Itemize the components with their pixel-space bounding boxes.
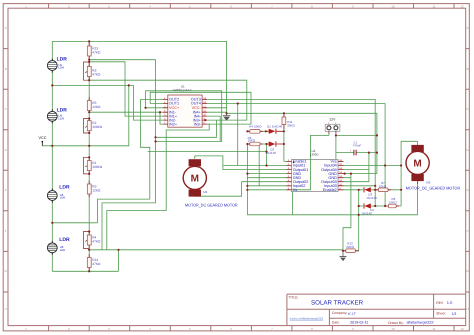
svg-text:VCC+: VCC+ xyxy=(169,106,180,110)
svg-text:12: 12 xyxy=(460,4,464,8)
capacitor C1 470uF xyxy=(350,141,362,156)
svg-text:LM339_D14-T: LM339_D14-T xyxy=(173,88,192,92)
diode D4 1N4148 xyxy=(361,203,374,215)
svg-text:1/1: 1/1 xyxy=(452,312,457,316)
svg-text:LDR: LDR xyxy=(59,66,65,70)
wire U2 right GND pins to R12 xyxy=(343,174,377,251)
svg-text:1.0: 1.0 xyxy=(447,300,453,305)
junction D4 anode xyxy=(358,205,360,207)
junction VCC LDR column xyxy=(51,145,53,147)
junction D1 anode xyxy=(265,130,267,132)
svg-text:R4 10KΩ: R4 10KΩ xyxy=(249,125,262,129)
U1 pin names xyxy=(169,98,202,127)
border zone numbers bottom xyxy=(25,327,464,331)
junction Input03 OUT3 xyxy=(374,185,376,187)
svg-text:22KΩ: 22KΩ xyxy=(287,124,295,128)
svg-text:E: E xyxy=(467,188,469,192)
border zone numbers top xyxy=(25,4,464,8)
junction R3 bottom xyxy=(88,79,90,81)
driver IC U2 L293D xyxy=(287,149,344,192)
svg-text:H: H xyxy=(467,307,469,311)
svg-text:D1 1N4148: D1 1N4148 xyxy=(267,125,283,129)
junction VCC column xyxy=(88,145,90,147)
svg-text:11: 11 xyxy=(432,4,435,8)
wire ground rail horizontal to right side xyxy=(227,113,377,173)
wire diode column down to R12 xyxy=(358,190,360,251)
junction Input02 branch xyxy=(246,185,248,187)
svg-text:12KΩ: 12KΩ xyxy=(92,105,101,109)
svg-text:LDR: LDR xyxy=(59,237,70,243)
wire IN1- branch to IN2+ xyxy=(160,112,163,124)
junction D2 cathode xyxy=(283,143,285,145)
junction GND right pin stub xyxy=(344,173,346,175)
resistor R14 xyxy=(87,254,101,271)
svg-text:LDR: LDR xyxy=(60,196,66,200)
wire IN4+ to ground rail xyxy=(207,111,227,113)
VCC net flag xyxy=(39,136,47,146)
U1 pin numbers xyxy=(164,97,207,125)
svg-text:M: M xyxy=(413,159,421,170)
svg-text:M2: M2 xyxy=(426,180,430,184)
trimmer resistor R4 xyxy=(84,232,101,249)
trimmer resistor R1 xyxy=(84,157,103,174)
svg-text:12KΩ: 12KΩ xyxy=(92,188,101,192)
svg-text:M1: M1 xyxy=(203,190,207,194)
junction LDR3-LDR4 xyxy=(51,222,53,224)
junction IN1- branch xyxy=(159,111,161,113)
junction Vs branch xyxy=(246,189,248,191)
border zone letters left xyxy=(5,26,8,311)
junction Vss C1 xyxy=(368,152,370,154)
wire node R13-R3 to IN1+ xyxy=(89,62,163,116)
wire ground rail top xyxy=(52,41,226,115)
junction Input01 branch xyxy=(265,164,267,166)
junction R2 bottom xyxy=(88,132,90,134)
diode D3 1N4148 xyxy=(364,187,377,200)
resistor R8 xyxy=(385,197,399,208)
junction Input04 M2 xyxy=(400,164,402,166)
svg-text:B: B xyxy=(467,67,469,71)
connector P1 12V xyxy=(325,117,340,133)
junction IN3+ stub xyxy=(204,119,206,121)
junction diode column motor rail xyxy=(358,214,360,216)
wire M2 top feed xyxy=(401,141,417,206)
TITLEBLOCK xyxy=(287,294,466,326)
wire bottom motors rail xyxy=(247,184,417,215)
PARTS xyxy=(39,41,461,271)
svg-text:10KΩ: 10KΩ xyxy=(379,184,387,188)
svg-text:LDR: LDR xyxy=(59,184,70,190)
border row ticks xyxy=(3,49,469,292)
trimmer resistor R2 xyxy=(84,119,103,134)
junction D3 anode xyxy=(358,189,360,191)
svg-text:A: A xyxy=(467,26,469,30)
junction GND right pins xyxy=(350,173,352,175)
diode D1 1N4148 xyxy=(266,125,284,134)
ground symbol near U1 xyxy=(223,113,231,120)
wire D4 R8 row xyxy=(359,205,401,207)
svg-text:REV: REV xyxy=(436,301,444,305)
svg-text:F: F xyxy=(5,229,7,233)
wire node R13-R3 long run down-left xyxy=(89,60,155,250)
wire Input03 xyxy=(344,185,376,187)
svg-text:M: M xyxy=(191,174,199,185)
wire 12V pin1 to U2 xyxy=(311,133,329,190)
wire R12 leads xyxy=(343,250,359,252)
wire Output02 to M1 bottom xyxy=(195,182,287,197)
junction right rail C1 xyxy=(376,152,378,154)
junction R4 top xyxy=(88,230,90,232)
svg-text:Vs: Vs xyxy=(293,188,298,192)
wire IN4- branch xyxy=(207,116,220,141)
junction R7 right xyxy=(400,189,402,191)
trimmer resistor R3 xyxy=(84,62,101,80)
junction VCC+ pin xyxy=(144,107,146,109)
wire D1 D2 cathode column R11 xyxy=(259,113,284,186)
svg-text:MOTOR_DC_GEARED MOTOR: MOTOR_DC_GEARED MOTOR xyxy=(406,185,461,190)
title block lines xyxy=(287,294,466,326)
junction R4h left xyxy=(246,130,248,132)
wire Output04 loop xyxy=(344,153,369,170)
border zone letters right xyxy=(466,26,469,311)
svg-text:10: 10 xyxy=(391,4,395,8)
svg-text:22KΩ: 22KΩ xyxy=(346,245,354,249)
wire IN3+ branch down-left xyxy=(156,120,217,137)
wire Vs xyxy=(247,189,286,191)
junction LDR1-LDR2 xyxy=(51,84,53,86)
wire VCC+ loop over U1 xyxy=(146,91,222,142)
wire M1 top to Output01 xyxy=(195,156,287,170)
wire LDR column xyxy=(51,41,53,271)
svg-text:alfattantarget222: alfattantarget222 xyxy=(407,321,434,325)
wire LDR1-LDR2 node to IN2- xyxy=(52,85,163,120)
junction R3 top xyxy=(88,61,90,63)
svg-text:Drawn By:: Drawn By: xyxy=(388,321,404,325)
junction D4 cathode xyxy=(374,205,376,207)
wire bottom long rail xyxy=(52,250,343,271)
junction bottom step xyxy=(117,249,119,251)
svg-text:47KΩ: 47KΩ xyxy=(92,239,101,243)
diode D2 1N4148 xyxy=(265,141,284,154)
photoresistor LDR U6 xyxy=(47,184,70,202)
svg-text:Enable2: Enable2 xyxy=(323,188,337,192)
svg-text:K.I.T: K.I.T xyxy=(348,312,356,316)
op-amp comparator U1 LM339 xyxy=(163,85,207,128)
junction long run IN4- tap xyxy=(154,140,156,142)
svg-text:10: 10 xyxy=(391,327,395,331)
svg-text:VCC: VCC xyxy=(39,136,47,140)
photoresistor LDR U4 xyxy=(47,107,67,123)
motor M1 xyxy=(183,159,237,207)
svg-text:H: H xyxy=(5,307,7,311)
wire OUT4 to Input04 vertical xyxy=(207,104,385,207)
svg-text:LDR: LDR xyxy=(59,117,65,121)
photoresistor LDR U5 xyxy=(47,57,67,73)
junction D3 cathode xyxy=(374,189,376,191)
junction R13 bottom xyxy=(88,59,90,61)
motor M2 xyxy=(406,145,461,190)
wire 12V pin2 to C1 Vss xyxy=(336,133,377,161)
wire R4h R6h left join xyxy=(247,131,249,144)
resistor R7 xyxy=(376,181,392,191)
svg-text:SOLAR TRACKER: SOLAR TRACKER xyxy=(311,299,364,306)
svg-text:1N4148: 1N4148 xyxy=(361,211,372,215)
svg-text:47KΩ: 47KΩ xyxy=(92,72,101,76)
junction R2 top xyxy=(88,117,90,119)
svg-text:Company:: Company: xyxy=(332,311,348,315)
junction VCC elbow xyxy=(128,84,130,86)
wire R5 node to IN1- xyxy=(89,111,163,113)
svg-text:47KΩ: 47KΩ xyxy=(92,50,101,54)
wire long horizontal to C1 xyxy=(148,151,267,153)
resistor R5 xyxy=(87,97,101,112)
svg-text:11: 11 xyxy=(432,327,435,331)
resistor R9 xyxy=(87,181,101,198)
wire R3 node outer loop to IN3+ xyxy=(89,80,247,120)
svg-text:470uF: 470uF xyxy=(353,144,361,148)
junction Input04 OUT4 xyxy=(384,164,386,166)
junction R1 bottom xyxy=(88,173,90,175)
svg-text:F: F xyxy=(467,229,469,233)
svg-text:A: A xyxy=(5,26,7,30)
wire U2 left GND pins xyxy=(247,174,286,178)
junction D1 cathode xyxy=(283,130,285,132)
wire OUT3 to Input03 xyxy=(207,99,375,206)
wire OUT4 branch to Input01 xyxy=(224,104,287,166)
svg-text:VCC-: VCC- xyxy=(192,106,202,110)
wire Output03 xyxy=(344,170,369,182)
photoresistor LDR U8 xyxy=(47,237,70,255)
svg-text:MOTOR_DC GEARED MOTOR: MOTOR_DC GEARED MOTOR xyxy=(185,202,238,207)
U2 pin numbers xyxy=(288,159,343,190)
wire OUT1 loop over U1 xyxy=(150,92,251,124)
svg-text:100KΩ: 100KΩ xyxy=(92,165,102,169)
svg-text:IN3-: IN3- xyxy=(194,122,202,126)
svg-text:lceda.cn/alfattantarget222: lceda.cn/alfattantarget222 xyxy=(290,316,324,320)
junction OUT4 column D4 row xyxy=(384,205,386,207)
junction D2 anode xyxy=(265,143,267,145)
svg-text:Sheet:: Sheet: xyxy=(436,312,446,316)
resistor R4h xyxy=(247,125,262,134)
svg-text:TITLE:: TITLE: xyxy=(288,296,298,300)
wire Vss to C1 xyxy=(336,153,377,162)
resistor R6h xyxy=(247,136,262,146)
svg-text:10KΩ: 10KΩ xyxy=(389,200,397,204)
wire VCC branch xyxy=(42,85,129,145)
resistor R11 xyxy=(282,114,296,129)
junction R1 top xyxy=(88,156,90,158)
junction 12V pin2 xyxy=(335,134,337,136)
svg-text:100KΩ: 100KΩ xyxy=(92,125,102,129)
junction OUT4 branch xyxy=(237,102,239,104)
junction R5 bottom xyxy=(88,111,90,113)
junction R12 left xyxy=(342,250,344,252)
junction R14 bottom xyxy=(88,270,90,272)
junction long run IN3+ tap xyxy=(154,136,156,138)
svg-text:B: B xyxy=(5,67,7,71)
wire Enable1 xyxy=(284,160,287,162)
svg-text:+: + xyxy=(350,149,352,153)
resistor R13 xyxy=(87,41,101,59)
junction long wire D2 branch xyxy=(265,151,267,153)
junction R6h left xyxy=(246,143,248,145)
svg-text:E: E xyxy=(5,188,7,192)
wire OUT2 run xyxy=(52,99,163,222)
wire resistor divider column xyxy=(88,41,90,271)
junction bottom rail R column xyxy=(88,249,90,251)
junction R11 top rail xyxy=(283,112,285,114)
junction ground rail right xyxy=(226,112,228,114)
svg-text:10KΩ: 10KΩ xyxy=(248,139,256,143)
junction R13 top xyxy=(88,40,90,42)
wire Input02 from R6 xyxy=(247,144,286,215)
svg-text:2019-02-11: 2019-02-11 xyxy=(350,321,368,325)
junction GND left pins xyxy=(246,173,248,175)
wire Enable2 D3 R7 row xyxy=(344,189,402,191)
svg-text:47KΩ: 47KΩ xyxy=(92,262,101,266)
svg-text:LDR: LDR xyxy=(57,107,68,113)
svg-text:1N4148: 1N4148 xyxy=(366,196,377,200)
wire VCC- to ground xyxy=(207,107,227,109)
wire Input04 xyxy=(344,165,402,167)
svg-text:LDR: LDR xyxy=(57,57,68,63)
ground symbol near R12 xyxy=(340,251,347,261)
svg-text:LDR: LDR xyxy=(60,248,66,252)
svg-text:Date:: Date: xyxy=(332,321,340,325)
svg-text:L293D: L293D xyxy=(310,152,320,156)
svg-text:12: 12 xyxy=(460,327,464,331)
resistor R12 xyxy=(343,242,359,253)
svg-text:IN2+: IN2+ xyxy=(169,122,178,126)
U2 pin names xyxy=(293,160,337,192)
svg-text:12V: 12V xyxy=(329,117,336,121)
wire IN3- branch under U1 xyxy=(107,124,209,250)
junction right rail 12V xyxy=(376,134,378,136)
